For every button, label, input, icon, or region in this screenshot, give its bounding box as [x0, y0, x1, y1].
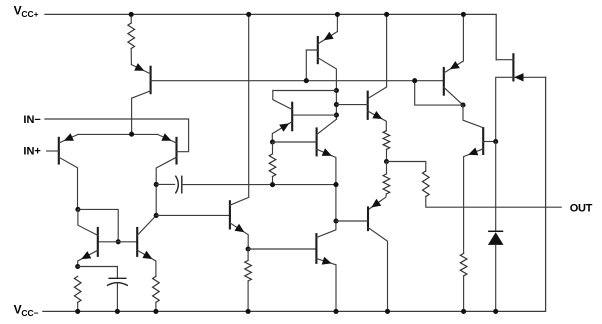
node cap line right — [333, 182, 338, 187]
wire R8 top — [387, 162, 426, 172]
emitter arrow Q3 — [161, 133, 171, 141]
resistor R8 — [423, 171, 430, 197]
transistor Q5 — [136, 227, 138, 257]
resistor R3 — [153, 276, 160, 302]
wire Q9 base — [273, 141, 317, 143]
node Q2 collector — [75, 207, 80, 212]
wire Q4 emitter — [78, 250, 98, 266]
wire C2 top — [78, 267, 118, 279]
wire Q2 emitter — [59, 134, 78, 143]
emitter arrow Q8 — [372, 111, 382, 119]
wire Q7 emitter — [272, 122, 292, 142]
junction Vcc+ x463 — [461, 12, 466, 17]
wire Q6 base — [306, 50, 318, 81]
junction Vcc- x387 — [385, 309, 390, 314]
junction Vcc- x463 — [461, 309, 466, 314]
wire D1 bottom — [495, 245, 497, 312]
emitter arrow Q4 — [81, 251, 91, 259]
junction Vcc- x77 — [75, 309, 80, 314]
transistor Q1 — [150, 66, 152, 95]
Vcc+ rail — [45, 14, 496, 59]
resistor R4 — [245, 260, 252, 281]
wire R5 top — [272, 142, 274, 154]
wire R7 to Q12 — [368, 194, 386, 210]
emitter arrow Q15 — [514, 73, 523, 81]
emitter arrow Q9 — [322, 148, 332, 156]
wire IN- route — [45, 119, 189, 152]
wire Q11 base — [156, 214, 230, 216]
wire Q10 emitter — [316, 259, 336, 312]
wire R2 bottom — [77, 302, 79, 311]
emitter arrow Q10 — [322, 257, 332, 265]
transistor Q4 — [97, 227, 99, 257]
wire Q1 emitter — [131, 65, 150, 74]
emitter arrow Q5 — [142, 251, 152, 259]
transistor Q2 — [58, 137, 60, 165]
emitter arrow Q11 — [235, 224, 245, 232]
wire Q4 collector — [78, 209, 98, 235]
wire mirror tie — [78, 209, 118, 241]
capacitor C2 — [108, 277, 126, 279]
wire Q12 collector — [368, 228, 388, 312]
wire base bus y80 — [151, 80, 444, 82]
junction Vcc- x248 — [246, 309, 251, 314]
wire Q15 top lead — [496, 59, 513, 61]
diode D1 — [488, 230, 503, 232]
junction Vcc+ x337 — [335, 12, 340, 17]
wire Q6 emitter — [318, 14, 338, 44]
wire OUT — [426, 197, 561, 208]
wire Q7 base — [292, 114, 336, 116]
wire Q13 collector — [444, 87, 463, 105]
wire mirror base right — [118, 241, 137, 243]
junction Vcc- x117 — [115, 309, 120, 314]
node Q5 collector — [154, 213, 159, 218]
wire Q13 emitter — [444, 14, 464, 73]
emitter arrow Q7 — [279, 123, 289, 131]
node tail — [129, 132, 134, 137]
emitter arrow Q13 — [450, 61, 460, 69]
svg-text:OUT: OUT — [570, 203, 593, 215]
wire Q3 emitter — [158, 134, 177, 143]
node C1 left — [154, 182, 159, 187]
wire Q11 emitter — [230, 223, 248, 249]
wire Q6 collector — [318, 58, 337, 120]
wire Q5 emitter — [137, 250, 156, 276]
wire Q10 collector — [316, 221, 336, 238]
junction Vcc+ x386 — [384, 12, 389, 17]
resistor R9 — [460, 253, 467, 276]
wire IN+ base — [47, 150, 59, 152]
wire L-link — [415, 81, 463, 105]
capacitor C1 — [175, 176, 178, 194]
node Q4 emitter — [75, 264, 80, 269]
transistor Q15 — [512, 53, 514, 81]
Vcc- rail — [43, 77, 546, 311]
emitter arrow Q1 — [134, 63, 144, 71]
node Q11 emitter — [246, 246, 251, 251]
transistor Q14 — [482, 127, 484, 155]
junction Vcc+ x131 — [129, 12, 134, 17]
node Q6 base — [304, 78, 309, 83]
junction Vcc- x336 — [333, 309, 338, 314]
junction Vcc- x155 — [153, 309, 158, 314]
wire Q1 collector — [132, 91, 151, 134]
wire Q9 emitter — [317, 149, 336, 221]
junction Vcc+ x248 — [246, 12, 251, 17]
transistor Q12 — [367, 206, 369, 231]
node mirror bases — [116, 239, 121, 244]
transistor Q3 — [175, 137, 177, 165]
svg-text:CC−: CC− — [21, 308, 38, 318]
wire Q5 collector — [137, 215, 156, 235]
node R5 bottom — [270, 182, 275, 187]
emitter arrow Q2 — [64, 133, 74, 141]
wire R1 bottom — [130, 49, 132, 65]
wire Q14 emitter — [464, 149, 484, 254]
wire Q2 collector — [59, 157, 78, 209]
wire Q14 base — [483, 141, 496, 143]
svg-text:CC+: CC+ — [21, 9, 38, 19]
wire Q12 base — [336, 220, 368, 222]
wire mirror base left — [98, 241, 118, 243]
resistor R7 — [383, 174, 390, 194]
node col336 b — [334, 102, 339, 107]
node Q12 base tie — [333, 218, 338, 223]
emitter arrow Q12 — [371, 199, 381, 208]
wire R3 bottom — [155, 302, 157, 311]
resistor R2 — [74, 276, 81, 302]
node col336 c — [334, 113, 339, 118]
wire C1 right — [182, 184, 336, 186]
wire Q11 collector — [230, 14, 249, 205]
wire Q8 base — [336, 104, 367, 106]
wire Q8 collector — [368, 14, 387, 98]
resistor R5 — [269, 154, 276, 177]
resistor R6 — [383, 131, 390, 150]
node base bus end — [412, 78, 417, 83]
wire Q7 collector — [273, 91, 337, 110]
emitter arrow Q6 — [324, 32, 334, 41]
wire R4 top — [247, 249, 249, 260]
wire Q9 collector — [317, 119, 337, 134]
transistor Q7 — [291, 102, 293, 132]
wire Q15 left lead — [496, 77, 514, 141]
transistor Q10 — [315, 233, 317, 264]
node Q14 base — [493, 139, 498, 144]
node col336 a — [334, 88, 339, 93]
wire R4 bottom — [247, 281, 249, 311]
wire R7 top — [386, 162, 388, 174]
junction Vcc- x495 — [493, 309, 498, 314]
wire Q14 collector — [463, 105, 483, 128]
wire R9 bottom — [463, 276, 465, 312]
node Q13 collector — [460, 102, 465, 107]
wire R6 bottom — [386, 149, 388, 161]
wire Q3 collector — [156, 157, 176, 215]
wire R1 top — [130, 14, 132, 23]
node R6/R7 — [384, 159, 389, 164]
wire D1 top — [495, 142, 497, 232]
wire R5 bottom — [272, 177, 274, 185]
transistor Q13 — [443, 67, 445, 96]
transistor Q8 — [367, 91, 369, 120]
resistor R1 — [128, 23, 135, 49]
wire Q15 right lead — [513, 76, 545, 78]
wire Q8 emitter — [368, 111, 387, 131]
svg-text:IN−: IN− — [23, 114, 40, 126]
transistor Q11 — [229, 200, 231, 229]
svg-text:IN+: IN+ — [23, 146, 40, 158]
node Q7 emitter — [270, 139, 275, 144]
wire Q10 base — [248, 248, 316, 250]
emitter arrow Q14 — [468, 148, 478, 156]
wire C1 left — [156, 183, 174, 185]
transistor Q9 — [316, 127, 318, 156]
transistor Q6 — [317, 36, 319, 64]
wire shared emitters — [78, 133, 157, 135]
wire C2 bottom — [116, 283, 118, 312]
